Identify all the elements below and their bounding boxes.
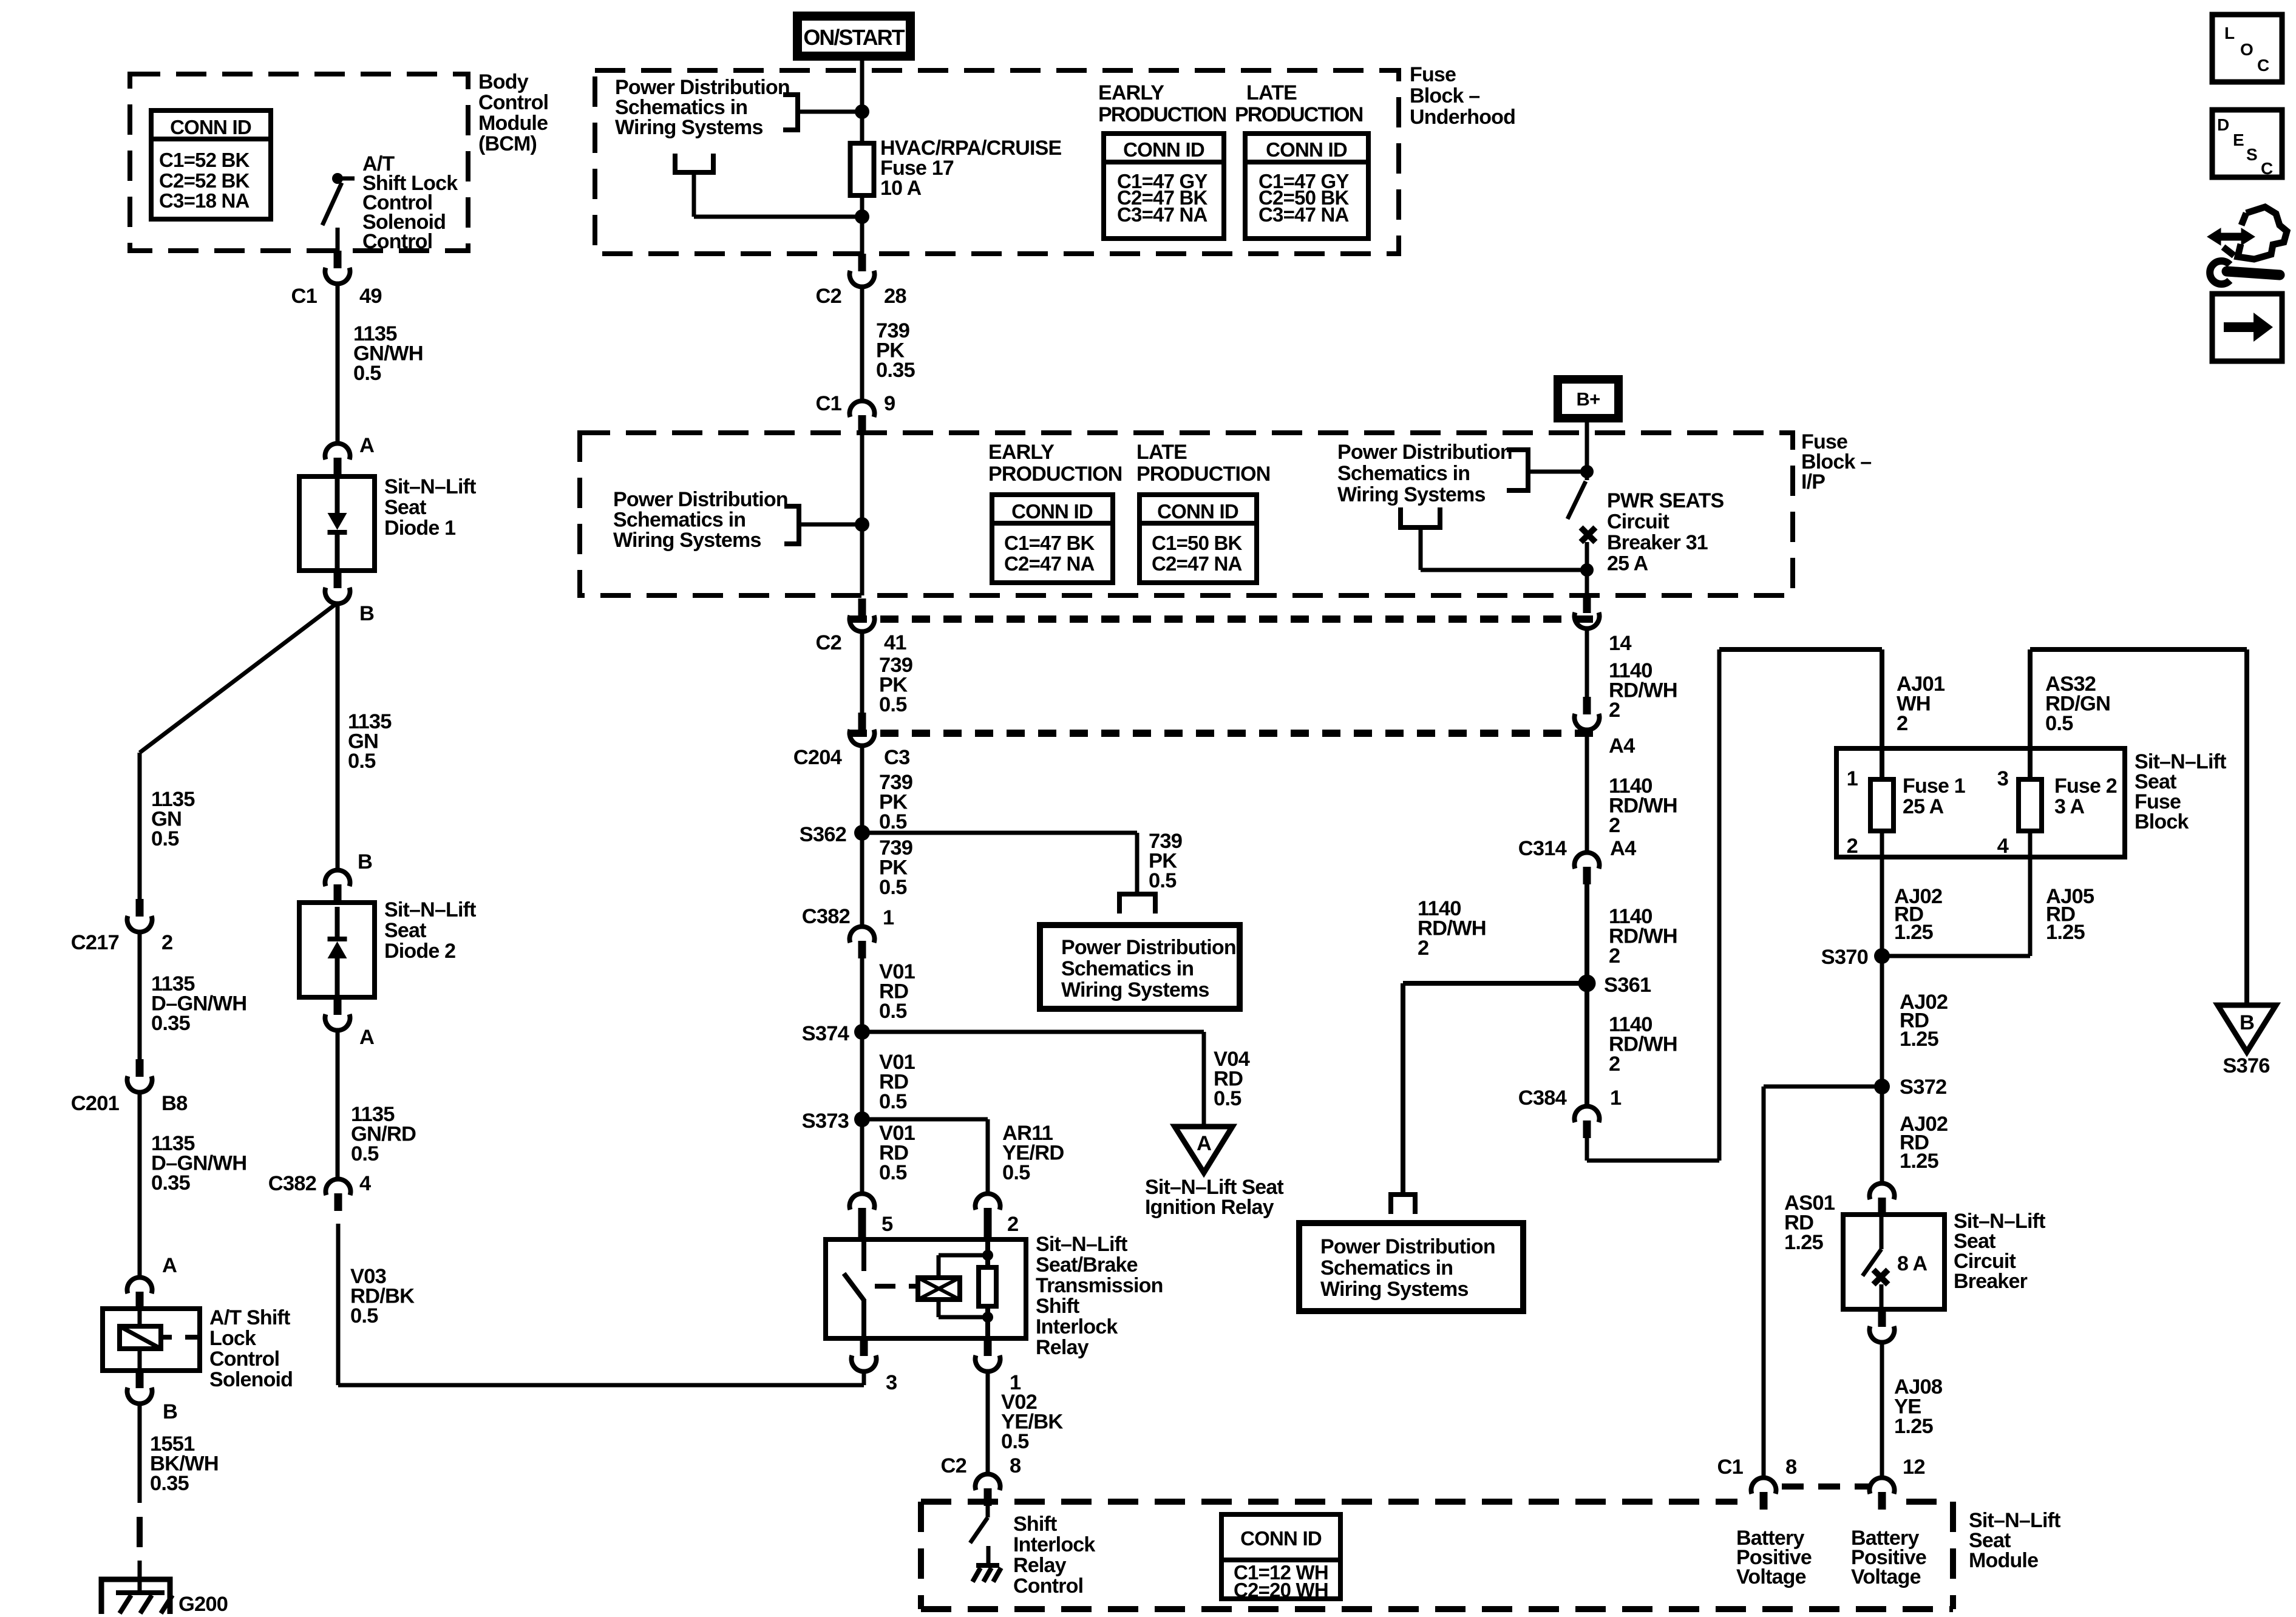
svg-text:Sit–N–Lift: Sit–N–Lift: [384, 475, 476, 498]
svg-text:CONN ID: CONN ID: [1266, 138, 1347, 161]
power feed box B+: [1554, 375, 1623, 422]
svg-text:C217: C217: [71, 931, 119, 954]
svg-text:Solenoid: Solenoid: [209, 1368, 293, 1391]
bracket pointer below branch: [1119, 894, 1155, 914]
svg-text:Module: Module: [478, 112, 548, 135]
svg-text:A: A: [359, 434, 374, 457]
svg-text:0.5: 0.5: [2045, 712, 2073, 735]
ground G200 symbol: [101, 1579, 170, 1614]
svg-text:2: 2: [1609, 1053, 1620, 1076]
svg-text:1: 1: [1847, 767, 1858, 790]
wire AJ02 S370 to S372: [1880, 956, 1884, 1086]
module Fuse Block - Underhood dashed outline: [595, 70, 1399, 254]
svg-text:Control: Control: [1013, 1575, 1083, 1598]
svg-text:Wiring Systems: Wiring Systems: [1061, 978, 1209, 1002]
svg-text:3 A: 3 A: [2054, 795, 2084, 818]
svg-text:G200: G200: [178, 1593, 228, 1616]
svg-text:Voltage: Voltage: [1851, 1565, 1921, 1588]
svg-text:Wiring Systems: Wiring Systems: [1337, 483, 1486, 506]
svg-text:B+: B+: [1577, 388, 1600, 410]
splice S370: [1874, 948, 1890, 964]
wire 1140 RD/WH 2 to C314: [1585, 729, 1589, 852]
svg-text:Shift: Shift: [1013, 1513, 1057, 1536]
svg-text:0.5: 0.5: [353, 362, 381, 385]
svg-text:A: A: [359, 1026, 374, 1049]
module Fuse Block - I/P dashed outline: [580, 433, 1793, 595]
wire branch S361 to power distribution (left): [1403, 981, 1587, 986]
svg-text:A: A: [162, 1254, 177, 1277]
svg-text:Schematics in: Schematics in: [1061, 957, 1194, 980]
power feed box ON/START: [793, 12, 915, 61]
relay dashed actuation link: [875, 1284, 918, 1289]
relay coil box with X: [918, 1278, 960, 1300]
bracket pointer 2 (underhood) to below fuse: [675, 154, 713, 172]
svg-text:0.35: 0.35: [151, 1171, 191, 1195]
wire 1135 D-GN/WH 0.35 (to A/T solenoid): [138, 1091, 142, 1277]
svg-text:Control: Control: [209, 1347, 279, 1371]
fuse F17 HVAC/RPA/CRUISE Fuse 17 10A: [860, 112, 864, 143]
svg-text:Ignition Relay: Ignition Relay: [1145, 1196, 1274, 1219]
svg-text:Sit–N–Lift: Sit–N–Lift: [1036, 1233, 1127, 1256]
wire AR11 branch S373 to relay pin 2: [862, 1117, 988, 1122]
connector C2 pin 28: [858, 254, 866, 271]
wire 739 PK inside I/P block: [860, 433, 864, 595]
table CONN ID (module): [1221, 1514, 1340, 1599]
svg-text:PRODUCTION: PRODUCTION: [1136, 463, 1271, 486]
svg-text:14: 14: [1609, 632, 1631, 655]
svg-text:Fuse: Fuse: [1410, 63, 1456, 86]
diode D2 symbol (arrow up): [335, 907, 340, 937]
wire V02 YE/BK 0.5: [986, 1371, 990, 1474]
svg-text:3: 3: [1997, 767, 2008, 790]
svg-text:1: 1: [1610, 1086, 1622, 1110]
wire 1140 RD/WH below S361: [1584, 983, 1589, 1106]
circuit breaker CB31 PWR SEATS Circuit Breaker 31 25A symbol: [1567, 481, 1586, 519]
fuse block box Sit-N-Lift Seat Fuse Block: [1836, 748, 2125, 857]
svg-text:A4: A4: [1610, 837, 1636, 860]
wire 739 PK 0.5: [860, 631, 864, 713]
svg-text:C2=47 NA: C2=47 NA: [1152, 552, 1242, 575]
junction dot below Fuse 17: [855, 209, 869, 224]
svg-text:Seat: Seat: [384, 919, 426, 942]
wire AJ01 horizontal to fuse 1: [1719, 647, 1882, 652]
wire 739 PK 0.35: [860, 286, 864, 401]
fuse F1 Fuse 1 25A: [1870, 779, 1894, 831]
splice S373: [854, 1111, 870, 1127]
wire 1135 GN/RD 0.5: [336, 1029, 340, 1179]
svg-text:C: C: [2257, 56, 2269, 75]
svg-text:LATE: LATE: [1136, 441, 1187, 464]
connector C217 pin 2: [136, 899, 144, 917]
switch driver A/T Shift Lock Control Solenoid Control (inside BCM): [332, 173, 343, 184]
wire relay pin3 to V03 (left): [862, 1371, 866, 1385]
svg-text:S373: S373: [802, 1110, 849, 1133]
svg-text:C2: C2: [940, 1454, 966, 1477]
box Power Distribution Schematics in Wiring Systems (middle): [1040, 925, 1240, 1009]
svg-text:C2: C2: [815, 285, 841, 308]
svg-text:5: 5: [881, 1213, 893, 1236]
svg-text:CONN ID: CONN ID: [1011, 500, 1093, 523]
svg-text:CONN ID: CONN ID: [1240, 1527, 1322, 1550]
svg-text:CONN ID: CONN ID: [1157, 500, 1238, 523]
svg-text:C1=52 BK: C1=52 BK: [159, 149, 250, 171]
svg-text:0.5: 0.5: [1001, 1430, 1029, 1453]
svg-text:2: 2: [161, 931, 172, 954]
icon LOC box: [2212, 15, 2282, 82]
connector relay pin 1: [984, 1338, 992, 1356]
svg-text:10 A: 10 A: [880, 177, 922, 200]
svg-text:CONN ID: CONN ID: [170, 116, 251, 138]
wire C384 to AJ01 riser: [1585, 1138, 1589, 1161]
svg-text:4: 4: [359, 1172, 371, 1195]
circuit breaker CB Sit-N-Lift Seat Circuit Breaker box: [1843, 1215, 1944, 1309]
svg-text:Breaker: Breaker: [1954, 1270, 2028, 1293]
wire 739 PK below S362: [860, 833, 864, 926]
wire 1140 RD/WH 2: [1585, 628, 1589, 697]
svg-text:Shift: Shift: [1036, 1295, 1079, 1318]
svg-text:Power Distribution: Power Distribution: [613, 488, 788, 511]
solenoid coil symbol: [120, 1326, 161, 1349]
connector relay pin 5: [850, 1193, 875, 1210]
svg-text:8: 8: [1785, 1456, 1797, 1479]
svg-text:Transmission: Transmission: [1036, 1274, 1163, 1297]
svg-text:C384: C384: [1518, 1086, 1567, 1110]
svg-text:Wiring Systems: Wiring Systems: [1320, 1278, 1469, 1301]
wire 1135 GN 0.5 (x556 down to diode 2): [336, 603, 340, 870]
svg-text:Wiring Systems: Wiring Systems: [615, 116, 763, 139]
connector below seat circuit breaker: [1878, 1309, 1886, 1327]
svg-text:1.25: 1.25: [1894, 921, 1934, 944]
connector into seat circuit breaker: [1870, 1183, 1895, 1199]
svg-text:Underhood: Underhood: [1410, 106, 1515, 129]
svg-text:25 A: 25 A: [1903, 795, 1944, 818]
svg-text:Diode 1: Diode 1: [384, 517, 455, 540]
seat circuit breaker symbol 8A: [1880, 1215, 1884, 1249]
svg-text:Power Distribution: Power Distribution: [1337, 441, 1512, 464]
svg-text:O: O: [2240, 40, 2253, 59]
svg-text:D: D: [2217, 115, 2229, 134]
bracket pointer to pink wire (I/P): [784, 506, 799, 544]
svg-text:0.5: 0.5: [351, 1142, 379, 1165]
svg-text:Interlock: Interlock: [1036, 1315, 1118, 1338]
svg-text:Control: Control: [362, 230, 432, 253]
connector C1 pin 49 (BCM): [334, 251, 342, 268]
svg-text:2: 2: [1897, 712, 1907, 735]
off-page triangle B (S376): [2218, 1005, 2276, 1052]
svg-text:PRODUCTION: PRODUCTION: [1098, 103, 1226, 126]
svg-text:49: 49: [359, 285, 382, 308]
wire from ON/START into fuse block: [860, 61, 864, 112]
wire V03 RD/BK vertical from C382-4: [336, 1224, 341, 1385]
svg-text:C3: C3: [884, 746, 910, 769]
svg-text:Fuse 2: Fuse 2: [2054, 775, 2117, 798]
connector 14 (fuse block output): [1583, 595, 1591, 613]
svg-text:Interlock: Interlock: [1013, 1533, 1095, 1556]
svg-text:2: 2: [1007, 1213, 1018, 1236]
svg-text:2: 2: [1847, 835, 1858, 858]
splice S361: [1578, 975, 1596, 992]
svg-text:0.5: 0.5: [1149, 869, 1177, 892]
svg-text:Diode 2: Diode 2: [384, 940, 455, 963]
svg-text:LATE: LATE: [1246, 81, 1297, 104]
svg-text:8 A: 8 A: [1897, 1252, 1927, 1275]
svg-text:1.25: 1.25: [2046, 921, 2085, 944]
svg-text:S361: S361: [1604, 974, 1651, 997]
svg-text:S370: S370: [1821, 946, 1868, 969]
svg-text:B: B: [2240, 1011, 2254, 1034]
module Sit-N-Lift Seat Module dashed outline: [921, 1499, 1737, 1505]
wire V01 RD 0.5 to S374: [860, 958, 864, 1032]
svg-text:Breaker 31: Breaker 31: [1607, 531, 1708, 554]
connector A4 (pass-through): [1583, 697, 1591, 714]
wire branch S362 to power distribution pointer: [862, 831, 1137, 835]
svg-text:C3=18 NA: C3=18 NA: [159, 189, 250, 212]
relay resistor: [985, 1239, 990, 1267]
svg-text:B: B: [359, 602, 374, 625]
svg-text:Schematics in: Schematics in: [613, 509, 746, 532]
svg-text:S: S: [2246, 145, 2257, 164]
wire AJ05 fuse2 to S370 branch: [2028, 831, 2033, 956]
svg-text:2: 2: [1609, 814, 1620, 837]
svg-text:CONN ID: CONN ID: [1123, 138, 1204, 161]
switch Shift Interlock Relay Control (inside module): [986, 1506, 990, 1517]
bracket pointer 2 (I/P) below breaker: [1401, 507, 1440, 527]
svg-text:Module: Module: [1969, 1549, 2038, 1572]
svg-text:A: A: [1197, 1132, 1211, 1155]
svg-text:Schematics in: Schematics in: [1320, 1256, 1453, 1280]
svg-text:Relay: Relay: [1013, 1554, 1067, 1577]
svg-text:2: 2: [1609, 699, 1620, 722]
svg-text:E: E: [2233, 131, 2244, 149]
icon forward arrow box: [2212, 294, 2282, 361]
svg-text:S372: S372: [1900, 1076, 1946, 1099]
svg-text:0.5: 0.5: [350, 1304, 378, 1327]
box Power Distribution Schematics in Wiring Systems (bottom): [1299, 1223, 1523, 1311]
svg-text:1.25: 1.25: [1900, 1028, 1939, 1051]
svg-text:C2: C2: [815, 631, 841, 654]
svg-text:Power Distribution: Power Distribution: [1061, 936, 1236, 959]
wire 1140 RD/WH 2 to S361: [1584, 884, 1589, 983]
svg-text:Block: Block: [2135, 810, 2189, 833]
svg-text:(BCM): (BCM): [478, 132, 537, 155]
connector B of A/T Shift Lock Control Solenoid: [136, 1371, 144, 1388]
svg-text:Wiring Systems: Wiring Systems: [613, 529, 761, 552]
svg-text:EARLY: EARLY: [1098, 81, 1164, 104]
junction dot below breaker: [1580, 563, 1594, 577]
svg-text:0.5: 0.5: [879, 1000, 907, 1023]
svg-text:Lock: Lock: [209, 1327, 256, 1350]
svg-text:0.35: 0.35: [876, 359, 915, 382]
svg-text:1.25: 1.25: [1900, 1150, 1939, 1173]
wire V01 RD 0.5 to relay pin 5: [860, 1119, 864, 1193]
svg-text:Schematics in: Schematics in: [1337, 462, 1470, 485]
svg-text:0.5: 0.5: [1214, 1087, 1241, 1110]
svg-text:Seat: Seat: [384, 496, 426, 519]
junction dot on 739 PK wire (I/P): [855, 517, 869, 532]
relay switch contact: [861, 1239, 866, 1271]
svg-text:1.25: 1.25: [1894, 1415, 1934, 1438]
junction dot at B+ feed: [1580, 465, 1594, 478]
wire AJ02 fuse1 to S370: [1880, 831, 1884, 956]
svg-text:B: B: [163, 1400, 177, 1423]
svg-text:Sit–N–Lift: Sit–N–Lift: [384, 898, 476, 921]
wire 1135 D-GN/WH 0.35: [138, 931, 142, 1059]
svg-text:C3=47 NA: C3=47 NA: [1258, 203, 1349, 226]
svg-text:41: 41: [884, 631, 906, 654]
svg-text:A4: A4: [1609, 734, 1635, 758]
connector C204 pin C3: [858, 713, 866, 730]
icon hand with arrows and wrench: [2207, 207, 2287, 284]
svg-text:L: L: [2224, 24, 2235, 42]
svg-text:12: 12: [1903, 1456, 1925, 1479]
svg-text:25 A: 25 A: [1607, 552, 1648, 575]
svg-text:C1: C1: [1717, 1456, 1743, 1479]
fuse F2 Fuse 2 3A: [2019, 779, 2042, 831]
svg-text:0.5: 0.5: [348, 750, 376, 773]
svg-text:0.35: 0.35: [150, 1472, 189, 1495]
svg-text:C382: C382: [802, 905, 850, 928]
svg-text:I/P: I/P: [1801, 470, 1825, 493]
inline connector separator dashed line 2: [849, 730, 1601, 737]
solenoid A/T Shift Lock Control Solenoid box: [103, 1309, 200, 1371]
svg-text:Voltage: Voltage: [1736, 1565, 1806, 1588]
svg-text:1: 1: [883, 906, 894, 929]
connector relay pin 3: [860, 1338, 868, 1356]
svg-text:B8: B8: [161, 1092, 188, 1115]
svg-text:C204: C204: [793, 746, 842, 769]
wire AJ02 S372 to circuit breaker: [1880, 1086, 1884, 1183]
svg-text:2: 2: [1418, 937, 1428, 960]
svg-text:0.5: 0.5: [151, 827, 179, 850]
wire V01 RD 0.5 to S373: [860, 1032, 864, 1119]
svg-text:0.5: 0.5: [879, 1090, 907, 1113]
svg-text:C3=47 NA: C3=47 NA: [1117, 203, 1207, 226]
svg-text:0.5: 0.5: [879, 810, 907, 833]
svg-text:S362: S362: [800, 823, 846, 846]
svg-text:Block –: Block –: [1410, 84, 1479, 107]
svg-text:C1: C1: [815, 392, 841, 415]
connector relay pin 2: [975, 1193, 1000, 1210]
svg-text:0.5: 0.5: [879, 1161, 907, 1184]
splice S372: [1874, 1079, 1890, 1094]
svg-text:C2=52 BK: C2=52 BK: [159, 169, 250, 192]
svg-text:C2=20 WH: C2=20 WH: [1234, 1579, 1328, 1601]
svg-text:Seat/Brake: Seat/Brake: [1036, 1253, 1138, 1276]
wire diagonal branch from node B to left column: [140, 603, 338, 753]
wire B+ into I/P fuse block: [1585, 422, 1589, 480]
off-page triangle A (Sit-N-Lift Seat Ignition Relay): [1175, 1127, 1232, 1173]
svg-text:S376: S376: [2223, 1054, 2269, 1077]
svg-text:0.35: 0.35: [151, 1012, 191, 1035]
svg-text:Body: Body: [478, 70, 529, 93]
svg-text:28: 28: [884, 285, 906, 308]
svg-text:3: 3: [886, 1371, 897, 1394]
module BCM dashed outline: [130, 74, 468, 251]
wire 1551 BK/WH 0.35 to ground (dashed off-page): [138, 1403, 142, 1503]
wire AJ01 down into fuse block: [1880, 649, 1884, 779]
wire 739 PK 0.5 to S362: [860, 745, 864, 833]
wire AS32 top route to S376: [2028, 649, 2033, 779]
svg-text:2: 2: [1609, 944, 1620, 968]
connector A of Sit-N-Lift Seat Diode 2: [334, 997, 342, 1015]
svg-text:Power Distribution: Power Distribution: [1320, 1235, 1495, 1258]
svg-text:Control: Control: [478, 91, 548, 114]
svg-text:EARLY: EARLY: [988, 441, 1055, 464]
wire V04 branch S374 to ignition relay triangle: [862, 1030, 1204, 1034]
svg-text:A/T Shift: A/T Shift: [209, 1306, 290, 1329]
splice S374: [854, 1024, 870, 1040]
svg-text:ON/START: ON/START: [803, 25, 905, 50]
table CONN ID (BCM): [151, 110, 271, 219]
svg-text:Circuit: Circuit: [1607, 510, 1669, 534]
svg-text:Relay: Relay: [1036, 1336, 1089, 1359]
relay coil parallel wiring: [937, 1255, 941, 1278]
svg-text:B: B: [358, 850, 372, 873]
svg-text:S374: S374: [802, 1022, 849, 1045]
svg-text:0.5: 0.5: [879, 876, 907, 899]
svg-text:C1=50 BK: C1=50 BK: [1152, 532, 1243, 554]
inline connector separator dashed line 1: [849, 615, 1601, 623]
diode D2 Sit-N-Lift Seat Diode 2 box: [299, 903, 375, 997]
bracket pointer to B+ wire: [1507, 450, 1528, 490]
svg-text:PRODUCTION: PRODUCTION: [988, 463, 1123, 486]
bracket pointer below S361 branch: [1391, 1195, 1415, 1214]
splice S362: [854, 825, 870, 841]
svg-text:C1: C1: [291, 285, 317, 308]
connector C2 pin 41: [858, 598, 866, 616]
svg-text:C201: C201: [71, 1092, 120, 1115]
svg-text:Fuse 1: Fuse 1: [1903, 775, 1965, 798]
diode D1 symbol: [335, 476, 340, 513]
svg-text:0.5: 0.5: [879, 693, 907, 716]
wire AS01 branch S372 to module pin 8: [1764, 1085, 1882, 1089]
wire 1135 GN/WH 0.5: [336, 283, 340, 443]
svg-text:C: C: [2261, 159, 2273, 178]
bracket pointer to wire (underhood): [783, 95, 798, 130]
connector C201 pin B8: [136, 1059, 144, 1077]
svg-text:C382: C382: [268, 1172, 316, 1195]
relay K1 Sit-N-Lift Seat/Brake Transmission Shift Interlock Relay box: [826, 1239, 1026, 1338]
wire AJ08 YE 1.25: [1880, 1341, 1884, 1477]
connector B of Sit-N-Lift Seat Diode 1: [334, 571, 342, 588]
svg-text:9: 9: [884, 392, 895, 415]
icon DESC box: [2212, 110, 2282, 177]
svg-text:C2=47 NA: C2=47 NA: [1004, 552, 1095, 575]
svg-text:1.25: 1.25: [1784, 1231, 1824, 1254]
diode D1 Sit-N-Lift Seat Diode 1 box: [299, 476, 375, 571]
svg-text:4: 4: [1997, 835, 2009, 858]
svg-text:PWR SEATS: PWR SEATS: [1607, 489, 1724, 512]
svg-text:PRODUCTION: PRODUCTION: [1235, 103, 1363, 126]
svg-text:0.5: 0.5: [1002, 1161, 1030, 1184]
junction dot above Fuse 17: [855, 104, 869, 119]
svg-text:C314: C314: [1518, 837, 1567, 860]
wire left column x230 down to C217: [138, 753, 142, 899]
svg-text:8: 8: [1010, 1454, 1021, 1477]
svg-text:C1=47 BK: C1=47 BK: [1004, 532, 1095, 554]
